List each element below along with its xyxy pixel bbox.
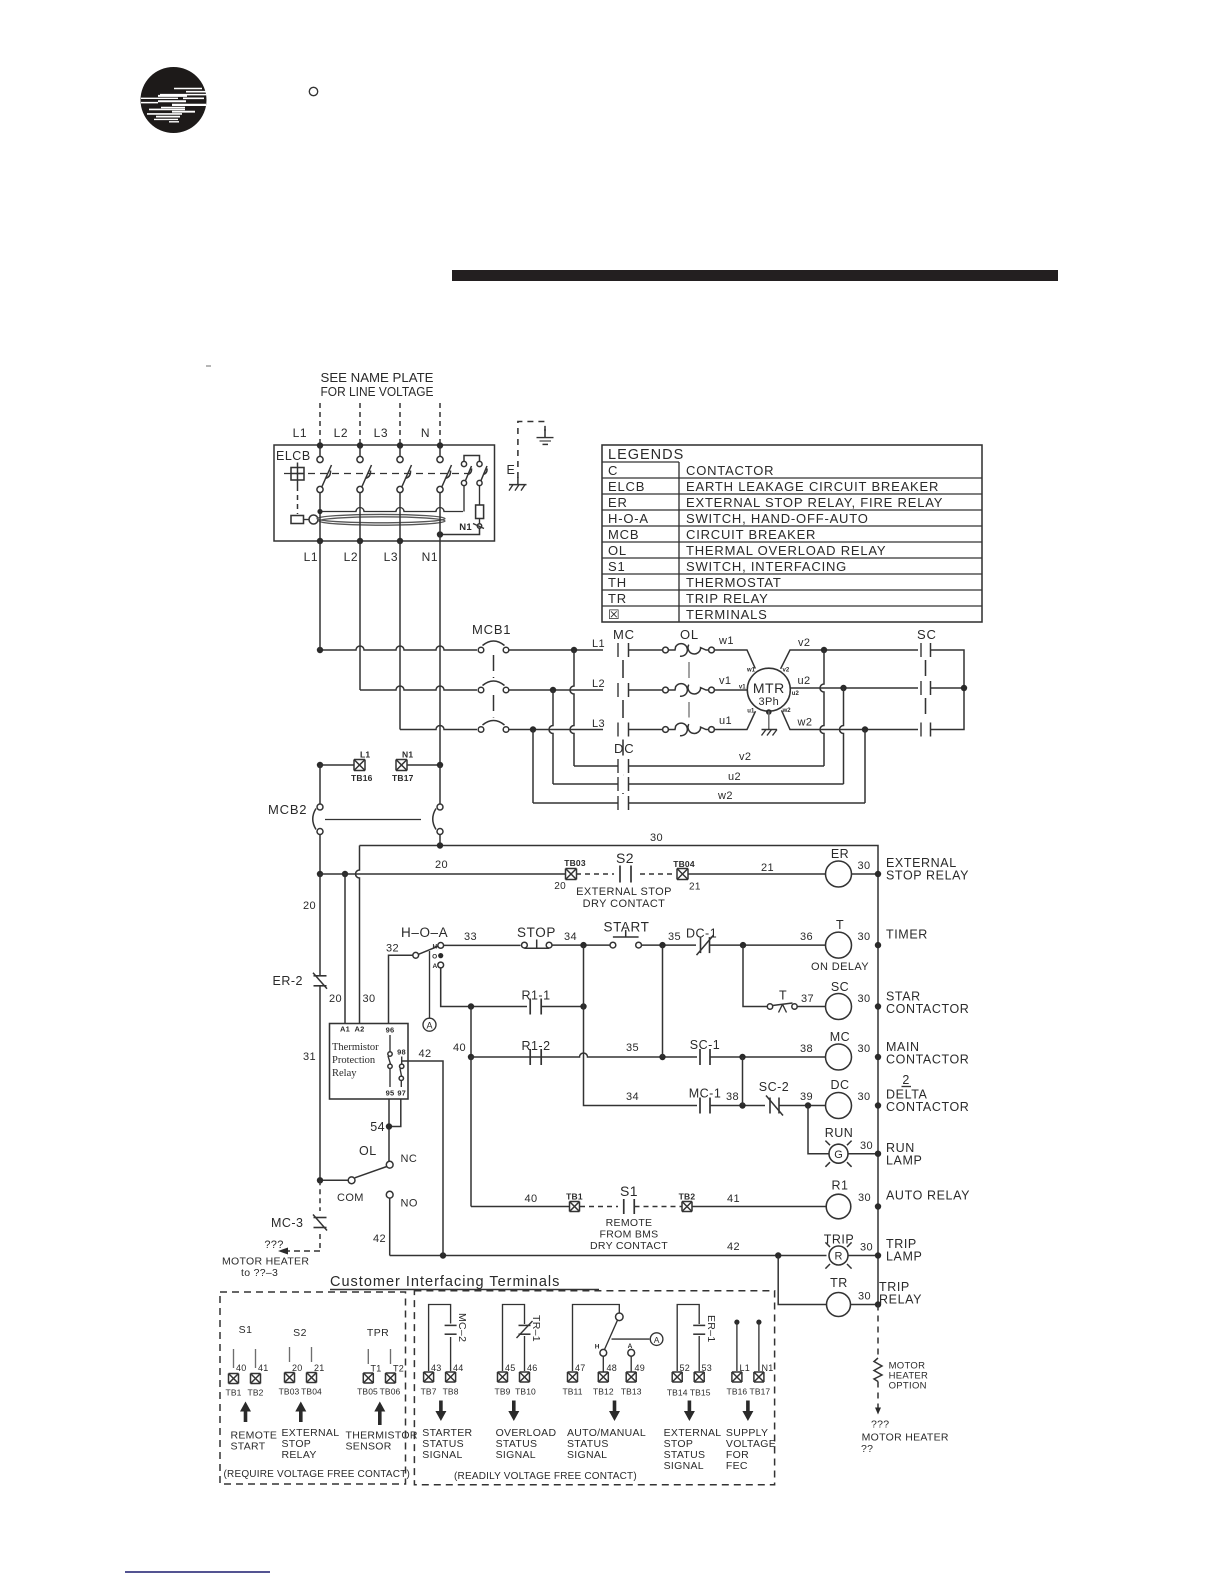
wire TRIP to rail (848, 1255, 878, 1257)
svg-text:SIGNAL: SIGNAL (664, 1460, 704, 1472)
svg-text:H: H (432, 943, 437, 950)
terminal TB8 (446, 1372, 456, 1382)
arrow starter dn (435, 1401, 446, 1422)
pushbutton START (610, 942, 616, 948)
wire L1 bus cont (319, 541, 321, 650)
svg-text:H: H (595, 1344, 600, 1351)
svg-text:ELCB: ELCB (608, 479, 645, 494)
terminal TB10 (520, 1372, 530, 1382)
svg-text:30: 30 (650, 832, 663, 844)
thermistor relay U1 box (330, 1024, 409, 1100)
wire MCB1 L3 out (509, 729, 603, 731)
svg-text:54: 54 (370, 1120, 385, 1134)
contactor SC contact v2 (920, 643, 922, 657)
svg-text:TB16: TB16 (351, 773, 373, 783)
wire 40 drop a (470, 1007, 472, 1058)
svg-text:TB10: TB10 (515, 1387, 536, 1397)
svg-text:v2: v2 (739, 751, 751, 763)
svg-text:35: 35 (668, 931, 681, 943)
svg-text:TB9: TB9 (495, 1387, 511, 1397)
svg-text:START: START (231, 1441, 266, 1453)
node dot 42b (775, 1252, 781, 1258)
arrow TPR up (374, 1402, 385, 1426)
wire L2 drop (549, 690, 553, 784)
wire incoming drop N (439, 403, 441, 445)
svg-text:42: 42 (373, 1233, 386, 1245)
svg-text:SIGNAL: SIGNAL (567, 1449, 607, 1461)
switch pivot (616, 1313, 624, 1321)
wire TB2 to R1 (693, 1206, 827, 1208)
U1 contact 97-98 (401, 1057, 403, 1065)
svg-text:TPR: TPR (367, 1327, 389, 1339)
terminal TB05 (363, 1373, 373, 1383)
node dot N top (437, 442, 443, 448)
svg-text:START: START (603, 920, 649, 935)
svg-text:SC: SC (917, 627, 937, 642)
svg-text:ER: ER (608, 495, 628, 510)
node dot L2 top (357, 442, 363, 448)
wire N1 switch to N bus (440, 529, 480, 535)
svg-text:40: 40 (236, 1363, 246, 1373)
wire DC1 to T (710, 944, 826, 946)
svg-text:u2: u2 (798, 675, 811, 687)
svg-text:TB17: TB17 (750, 1387, 771, 1397)
contact H (438, 943, 444, 949)
wire A to R1-1 row (441, 968, 527, 1007)
svg-text:21: 21 (761, 862, 774, 874)
MCB2 link (325, 819, 424, 821)
wire TR branch (778, 1256, 826, 1305)
svg-text:R1-2: R1-2 (521, 1039, 550, 1053)
node dot ER left (317, 871, 323, 877)
svg-text:L2: L2 (592, 678, 605, 690)
node dot 39 branch (805, 1102, 811, 1108)
wire R1-1 to 34 (541, 1006, 583, 1008)
svg-text:u2: u2 (792, 691, 800, 697)
svg-text:TB04: TB04 (673, 859, 695, 869)
wire v1 to motor (715, 689, 748, 691)
wire MC1 to SC2 (710, 1105, 766, 1107)
terminal TB12 (598, 1372, 608, 1382)
svg-text:TB05: TB05 (357, 1387, 378, 1397)
svg-text:TH: TH (608, 575, 627, 590)
ELCB pole N blade (442, 465, 452, 487)
node dot R1 rail (875, 1203, 881, 1209)
svg-text:30: 30 (858, 1192, 871, 1204)
svg-text:ON DELAY: ON DELAY (811, 961, 869, 973)
registered-mark ring (309, 87, 317, 95)
svg-text:TB2: TB2 (248, 1388, 264, 1398)
wire MC-3 dashed (319, 1180, 321, 1211)
wire 34 row (584, 1007, 698, 1106)
svg-text:v1: v1 (739, 684, 746, 690)
svg-text:RUN: RUN (825, 1126, 854, 1140)
switch auto blade (605, 1320, 618, 1349)
svg-text:MC-3: MC-3 (271, 1216, 304, 1230)
svg-text:ELCB: ELCB (276, 449, 311, 463)
wire NO down 42 (389, 1198, 391, 1255)
svg-text:A2: A2 (355, 1025, 365, 1034)
switch OL blade (355, 1167, 387, 1178)
svg-text:ER-2: ER-2 (273, 974, 303, 988)
wire delta w2 (533, 802, 618, 804)
lamp TRIP (829, 1246, 848, 1265)
MCB1 pole 2 (478, 687, 484, 693)
svg-text:N1: N1 (459, 522, 472, 533)
ELCB aux bracket (464, 456, 480, 462)
contactor MC contact 2 (617, 683, 619, 697)
svg-text:v2: v2 (783, 667, 790, 673)
wire L3 bus elbow (399, 541, 401, 730)
motor ground (768, 711, 770, 729)
contactor coil SC (826, 994, 852, 1020)
motor MTR circle (747, 668, 790, 711)
contact MC-1 (699, 1098, 701, 1114)
wire L2 bus in box (359, 446, 361, 457)
overload OL element 1 (663, 647, 669, 653)
svg-text:R1: R1 (832, 1179, 849, 1193)
ELCB pole L1 blade (322, 465, 332, 487)
svg-text:H-O-A: H-O-A (608, 511, 649, 526)
MCB1 link (493, 655, 495, 678)
svg-text:TB06: TB06 (380, 1387, 401, 1397)
svg-text:CONTACTOR: CONTACTOR (886, 1002, 969, 1016)
contact MC-2 (445, 1324, 457, 1326)
wire 97 down (389, 1099, 401, 1127)
svg-text:S1: S1 (608, 559, 626, 574)
node dot L1 tap (317, 762, 323, 768)
terminal TB1 R1 (570, 1202, 580, 1212)
node dot N1 tap (437, 762, 443, 768)
ELCB mechanical link (284, 473, 468, 475)
svg-text:CONTACTOR: CONTACTOR (686, 463, 774, 478)
contactor coil MC (826, 1044, 852, 1070)
wire L1 bus in box (319, 446, 321, 457)
svg-text:TB11: TB11 (562, 1387, 582, 1397)
svg-text:39: 39 (800, 1091, 813, 1103)
switch H-O-A blade (419, 946, 438, 954)
timed contact T (767, 1004, 772, 1009)
svg-text:MC: MC (613, 627, 635, 642)
node dot 574 L1 (571, 647, 577, 653)
svg-text:N1: N1 (422, 550, 438, 564)
contact SC-2 (769, 1098, 771, 1114)
node dot 40 mid (468, 1054, 474, 1060)
ELCB aux resistor (479, 486, 481, 505)
svg-text:EARTH LEAKAGE CIRCUIT BREAKER: EARTH LEAKAGE CIRCUIT BREAKER (686, 479, 939, 494)
switch H-O-A common (413, 952, 419, 958)
svg-text:20: 20 (554, 881, 566, 892)
svg-text:Relay: Relay (332, 1068, 357, 1079)
wire RUN branch (808, 1106, 829, 1154)
svg-text:RELAY: RELAY (282, 1449, 317, 1461)
contact ER-1 (693, 1324, 705, 1326)
wire 95 down (388, 1099, 390, 1164)
wire TPR b (390, 1349, 392, 1364)
svg-text:L1: L1 (304, 550, 318, 564)
svg-text:TERMINALS: TERMINALS (686, 607, 768, 622)
earth E dashed riser (518, 422, 545, 479)
svg-text:w2: w2 (717, 790, 733, 802)
wire L3 to MCB1 (400, 726, 477, 730)
svg-text:EXTERNAL STOP: EXTERNAL STOP (576, 886, 672, 898)
svg-text:21: 21 (314, 1363, 324, 1373)
ELCB toroid core (317, 514, 445, 522)
svg-text:DC: DC (614, 741, 634, 756)
terminal TB9 (498, 1372, 508, 1382)
wire H to 33 (444, 944, 521, 946)
svg-text:32: 32 (386, 943, 399, 955)
wire N bus in box (439, 446, 441, 457)
switch OL NO (386, 1191, 393, 1198)
wire MCB2-2 down (439, 834, 441, 846)
node dot SC rail (875, 1003, 881, 1009)
node dot 38 DC (739, 1102, 745, 1108)
svg-text:30: 30 (858, 860, 871, 872)
node dot ER A1 (342, 871, 348, 877)
svg-text:35: 35 (626, 1042, 639, 1054)
wire motor v2 (781, 650, 918, 669)
wire 42 trip row (390, 1255, 827, 1257)
svg-text:SWITCH, INTERFACING: SWITCH, INTERFACING (686, 559, 847, 574)
svg-text:40: 40 (453, 1042, 466, 1054)
ELCB pole L2 bottom contact (357, 486, 363, 492)
wire RUN to rail (848, 1153, 878, 1155)
wire L2 to MCB1 (360, 686, 477, 690)
svg-text:ER: ER (831, 847, 849, 861)
svg-text:C: C (608, 463, 618, 478)
stray mark (206, 365, 211, 367)
relay coil TR (827, 1293, 851, 1317)
svg-text:v1: v1 (719, 675, 731, 687)
wire w2 drop (864, 730, 866, 804)
node dot 35 MC (659, 1054, 665, 1060)
contactor MC contact 3 (617, 723, 619, 737)
wire TR to rail (851, 1304, 879, 1306)
wire heater dashed (877, 1382, 879, 1411)
svg-text:u1: u1 (719, 715, 732, 727)
svg-text:COM: COM (337, 1192, 364, 1204)
svg-text:30: 30 (363, 993, 376, 1005)
svg-text:L3: L3 (384, 550, 398, 564)
svg-text:CONTACTOR: CONTACTOR (886, 1100, 969, 1114)
MCB1 pole 3 (478, 727, 484, 733)
node dot TR rail (875, 1301, 881, 1307)
svg-text:20: 20 (435, 859, 448, 871)
svg-text:95: 95 (386, 1089, 395, 1098)
arrow auto dn (609, 1401, 620, 1422)
svg-text:L3: L3 (592, 718, 605, 730)
contact R1-1 (529, 999, 531, 1015)
svg-text:42: 42 (727, 1241, 740, 1253)
wire MCB2-1 down (319, 834, 321, 874)
node dot 42a (440, 1252, 446, 1258)
svg-text:OPTION: OPTION (889, 1381, 927, 1392)
svg-text:TR: TR (830, 1276, 848, 1290)
wire START-DC1 (642, 944, 697, 946)
svg-text:41: 41 (258, 1363, 268, 1373)
contactor coil DC (826, 1093, 852, 1119)
node dot 38 branch (739, 1054, 745, 1060)
wire MC-OL 3 (629, 729, 663, 731)
svg-text:TB15: TB15 (690, 1388, 711, 1398)
contact SC-1 (699, 1049, 701, 1065)
svg-text:SEE NAME PLATE: SEE NAME PLATE (321, 370, 434, 385)
svg-text:u1: u1 (747, 709, 755, 715)
svg-text:MCB: MCB (608, 527, 639, 542)
svg-text:(REQUIRE VOLTAGE FREE CONTACT): (REQUIRE VOLTAGE FREE CONTACT) (224, 1469, 411, 1480)
wire SC star bar (931, 650, 965, 730)
wire blade to A-sym (612, 1338, 650, 1340)
node dot L1 top (317, 442, 323, 448)
svg-text:TB1: TB1 (566, 1192, 583, 1202)
node dot w2 (862, 726, 868, 732)
symbol A-circle (423, 1018, 436, 1031)
wire delta u2 (553, 783, 618, 785)
terminal TB16 (732, 1372, 742, 1382)
svg-text:(READILY VOLTAGE FREE CONTACT): (READILY VOLTAGE FREE CONTACT) (454, 1471, 637, 1482)
svg-text:L1: L1 (293, 426, 307, 440)
svg-text:CONTACTOR: CONTACTOR (886, 1053, 969, 1067)
node dot 35 (659, 942, 665, 948)
svg-text:42: 42 (418, 1048, 431, 1060)
wire COM to 20rail (320, 1179, 348, 1181)
svg-text:w2: w2 (797, 717, 813, 729)
node dot L1 sense (317, 509, 322, 514)
U1 contact 95-96 (389, 1035, 391, 1052)
switch H-O-A link to A-aux (429, 951, 431, 1018)
wire incoming drop L2 (359, 403, 361, 445)
node dot 36 branch (740, 942, 746, 948)
switch S1 contact (623, 1199, 625, 1214)
terminal TB04 (307, 1373, 317, 1383)
svg-text:30: 30 (858, 1091, 871, 1103)
svg-text:38: 38 (726, 1091, 739, 1103)
svg-text:MC: MC (830, 1030, 850, 1044)
svg-text:???: ??? (871, 1419, 889, 1431)
svg-text:MCB2: MCB2 (268, 802, 307, 817)
MCB1 pole 1 (478, 647, 484, 653)
svg-text:A: A (654, 1335, 660, 1345)
svg-text:STOP RELAY: STOP RELAY (886, 869, 969, 883)
logo mark (141, 67, 207, 133)
wire L1 drop (570, 650, 574, 766)
svg-text:OL: OL (680, 627, 699, 642)
node dot DC rail (875, 1102, 881, 1108)
svg-text:??: ?? (861, 1443, 873, 1455)
svg-text:30: 30 (858, 1291, 871, 1303)
wire incoming drop L3 (399, 403, 401, 445)
svg-text:98: 98 (397, 1048, 406, 1057)
node dot 533 L3 (530, 726, 536, 732)
svg-text:SENSOR: SENSOR (346, 1441, 392, 1453)
wire ER row (320, 873, 566, 875)
node dot 54 (386, 1123, 392, 1129)
overload OL element 3 (663, 727, 669, 733)
svg-text:G: G (834, 1149, 843, 1161)
svg-text:AUTO RELAY: AUTO RELAY (886, 1189, 970, 1203)
svg-text:LAMP: LAMP (886, 1154, 922, 1168)
wire S1 b (255, 1349, 257, 1368)
contactor DC contact w2 (617, 796, 619, 810)
contact O (438, 953, 443, 958)
wire N bus cont (439, 535, 441, 766)
svg-text:O: O (432, 953, 437, 960)
svg-text:S1: S1 (620, 1183, 638, 1199)
terminal TB13 (626, 1372, 636, 1382)
terminal TB17 (754, 1372, 764, 1382)
wire S1 a (233, 1349, 235, 1368)
terminal TB14 (672, 1372, 682, 1382)
contact DC-1 (700, 937, 702, 953)
svg-text:☒: ☒ (608, 607, 620, 622)
ELCB pole N top contact (437, 456, 443, 462)
svg-text:A1: A1 (340, 1025, 350, 1034)
OL link (688, 662, 690, 678)
wire A to TB13 (630, 1356, 632, 1371)
svg-text:THERMOSTAT: THERMOSTAT (686, 575, 782, 590)
ELCB pole L3 bottom contact (397, 486, 403, 492)
switch S2 contact (619, 866, 621, 883)
svg-text:T1: T1 (371, 1364, 382, 1374)
svg-text:TB12: TB12 (593, 1387, 614, 1397)
svg-text:L2: L2 (334, 426, 348, 440)
svg-text:TB03: TB03 (279, 1387, 300, 1397)
ELCB test button (291, 468, 304, 481)
node dot 553 L2 (550, 687, 556, 693)
svg-text:OL: OL (608, 543, 627, 558)
svg-text:20: 20 (329, 993, 342, 1005)
terminal TB06 (386, 1373, 396, 1383)
ELCB enclosure box (274, 445, 495, 541)
ELCB pole L2 top contact (357, 456, 363, 462)
breaker MCB2 pole1 (317, 804, 323, 810)
terminal TB04 ER (677, 869, 688, 880)
wire delta v2 (574, 765, 618, 767)
wire STOP-START (552, 944, 610, 946)
svg-text:20: 20 (292, 1363, 302, 1373)
svg-text:RELAY: RELAY (879, 1293, 922, 1307)
left dashed box (220, 1292, 406, 1484)
svg-text:EXTERNAL STOP RELAY, FIRE RELA: EXTERNAL STOP RELAY, FIRE RELAY (686, 495, 943, 510)
switch OL COM (348, 1177, 355, 1184)
svg-text:TR–1: TR–1 (530, 1315, 542, 1342)
wire u2 drop (840, 688, 844, 784)
wire ER-1 loop (677, 1305, 699, 1372)
terminal TB03 (285, 1373, 295, 1383)
svg-text:2: 2 (902, 1073, 909, 1087)
switch OL NC (386, 1161, 393, 1168)
svg-text:MOTOR HEATER: MOTOR HEATER (862, 1431, 949, 1443)
wire v2 drop (820, 650, 824, 766)
svg-text:T2: T2 (393, 1364, 404, 1374)
svg-text:TB2: TB2 (679, 1192, 696, 1202)
svg-text:30: 30 (858, 1043, 871, 1055)
ELCB pole L1 bottom contact (317, 486, 323, 492)
ELCB aux contact a (461, 461, 466, 466)
svg-text:THERMAL OVERLOAD RELAY: THERMAL OVERLOAD RELAY (686, 543, 886, 558)
arrow ext stop dn (684, 1401, 695, 1422)
node dot RUN rail (875, 1151, 881, 1157)
contactor MC contact 1 (617, 643, 619, 657)
footer rule (125, 1571, 270, 1573)
svg-text:LEGENDS: LEGENDS (608, 447, 684, 463)
svg-text:L1: L1 (360, 750, 370, 760)
node dot star (961, 685, 967, 691)
svg-text:STOP: STOP (517, 925, 556, 940)
svg-text:E: E (507, 463, 515, 477)
ELCB pole N bottom contact (437, 486, 443, 492)
